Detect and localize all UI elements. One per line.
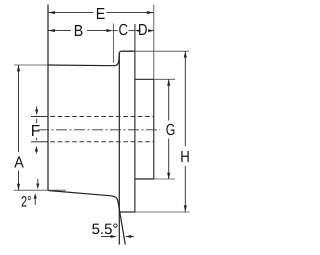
svg-text:H: H: [180, 149, 190, 166]
svg-text:2°: 2°: [21, 194, 32, 211]
dim H top arrow: [184, 51, 187, 57]
flange top edge: [121, 50, 134, 52]
svg-text:B: B: [74, 23, 84, 40]
flange front face + 5.5deg reference extension: [118, 53, 120, 245]
dim H line: [184, 51, 186, 146]
ext line E/D right (boss face extended): [153, 5, 155, 80]
2deg down arrow: [37, 179, 39, 183]
boss right face: [153, 79, 155, 179]
dim G top arrow: [167, 79, 170, 85]
svg-text:C: C: [119, 22, 129, 39]
hub bottom tapered face (2deg) into 5.5deg flange face line: [48, 191, 125, 245]
flange bottom edge: [119, 211, 135, 213]
svg-text:E: E: [96, 6, 106, 23]
dim G line: [168, 79, 170, 120]
ext line G bottom: [154, 178, 175, 180]
boss bottom edge: [135, 178, 154, 180]
centerline: [38, 129, 160, 131]
dim H bottom arrow: [184, 205, 187, 211]
dim F bottom arrow: [35, 151, 37, 154]
dim B right arrow: [106, 29, 112, 32]
flange back face: [134, 24, 136, 212]
svg-text:D: D: [138, 22, 148, 39]
ext line H bottom: [135, 211, 190, 213]
dim A line: [18, 65, 20, 152]
boss top edge: [135, 78, 154, 80]
2deg up arrow: [34, 199, 36, 205]
dim E right arrow: [147, 11, 153, 14]
ext line A top: [14, 64, 48, 66]
dim D line: [148, 30, 154, 32]
ext line G top: [154, 78, 175, 80]
dim C stub: [129, 30, 135, 32]
hub top face with fillet into flange: [48, 53, 119, 66]
dim B line: [49, 30, 72, 32]
svg-text:A: A: [14, 155, 24, 172]
bore hidden line lower: [31, 141, 43, 143]
ext line H top: [135, 50, 189, 52]
svg-text:G: G: [166, 122, 176, 139]
dim A top arrow: [17, 65, 20, 71]
hub left face (also E/B left extension line): [47, 5, 49, 191]
dim B left arrow: [49, 29, 55, 32]
5.5deg left arrow: [101, 236, 111, 238]
5.5deg right arrow: [130, 236, 135, 238]
svg-text:F: F: [31, 123, 41, 140]
dim G bottom arrow: [167, 173, 170, 179]
dim A bottom arrow: [17, 184, 20, 190]
bore hidden line upper: [31, 116, 43, 118]
dim E line: [49, 12, 94, 14]
svg-text:5.5°: 5.5°: [92, 221, 119, 238]
dim E left arrow: [49, 11, 55, 14]
ext line B/C boundary: [112, 24, 114, 63]
dim F top arrow: [36, 106, 38, 110]
dim C arrow at flange back face: [135, 29, 140, 32]
flange top corner radius: [119, 51, 121, 53]
ext line A bottom: [14, 189, 66, 191]
ext line C/D boundary above flange: [134, 24, 136, 51]
dim D right arrow: [148, 29, 153, 32]
